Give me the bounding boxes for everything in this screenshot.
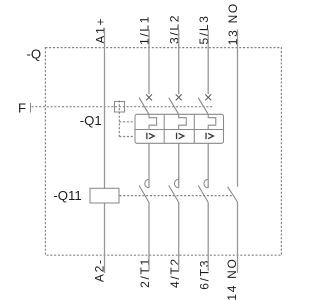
wire L1 breaker to contactor [148, 143, 150, 188]
F trip linkage dashed wire [32, 106, 214, 108]
thermal overload element pole 3 [208, 114, 216, 129]
contactor fixed contact arc pole 3 [204, 179, 208, 188]
trip actuator square [115, 102, 125, 113]
magnetic trip I> pole 3 [206, 133, 213, 140]
circuit breaker -Q1 housing [135, 114, 224, 143]
wire 4/T2 bottom [178, 202, 180, 271]
wire 2/T1 bottom [148, 202, 150, 271]
breaker blade pole 2 [169, 98, 179, 115]
breaker blade pole 1 [139, 98, 149, 115]
svg-text:6/T3: 6/T3 [197, 259, 211, 290]
wire 5/L3 top [207, 30, 209, 95]
actuator vertical linkage dashed [118, 101, 120, 137]
contactor linkage dashed [120, 195, 234, 197]
wire A2 coil return [104, 203, 106, 273]
actuator lower branch dashed [119, 136, 135, 138]
svg-text:-Q: -Q [27, 46, 42, 61]
wire 3/L2 top [178, 30, 180, 95]
breaker contact cross pole 2 [176, 94, 182, 100]
breaker contact cross pole 1 [146, 94, 152, 100]
svg-text:-Q11: -Q11 [53, 188, 81, 203]
wire 14 NO bottom [237, 202, 239, 273]
svg-text:A1+: A1+ [93, 17, 107, 44]
contactor blade pole 3 [198, 185, 208, 202]
enclosure -Q dashed outline [45, 48, 281, 256]
svg-text:-Q1: -Q1 [80, 113, 102, 128]
wire 6/T3 bottom [207, 202, 209, 271]
wire A1 coil feed [104, 30, 106, 189]
wire 1/L1 top [148, 30, 150, 95]
svg-text:4/T2: 4/T2 [168, 257, 182, 288]
wire L3 breaker to contactor [207, 143, 209, 188]
wire 13 NO top [237, 30, 239, 187]
thermal overload element pole 1 [149, 114, 157, 129]
contactor blade pole 2 [169, 185, 179, 202]
svg-text:14 NO: 14 NO [225, 257, 239, 300]
contactor fixed contact arc pole 1 [145, 179, 149, 188]
contactor blade pole 1 [139, 185, 149, 202]
wire L2 breaker to contactor [178, 143, 180, 188]
actuator upper branch dashed [119, 121, 135, 123]
svg-text:2/T1: 2/T1 [138, 257, 152, 288]
thermal overload element pole 2 [179, 114, 187, 129]
breaker blade pole 3 [198, 98, 208, 115]
contactor fixed contact arc pole 2 [174, 179, 178, 188]
F terminal tick [30, 103, 32, 113]
svg-text:F: F [18, 100, 26, 115]
magnetic trip I> pole 2 [177, 133, 184, 140]
contactor coil -Q11 [90, 188, 119, 203]
auxiliary contact 13/14 blade [228, 187, 238, 202]
breaker contact cross pole 3 [205, 94, 211, 100]
magnetic trip I> pole 1 [147, 133, 154, 140]
